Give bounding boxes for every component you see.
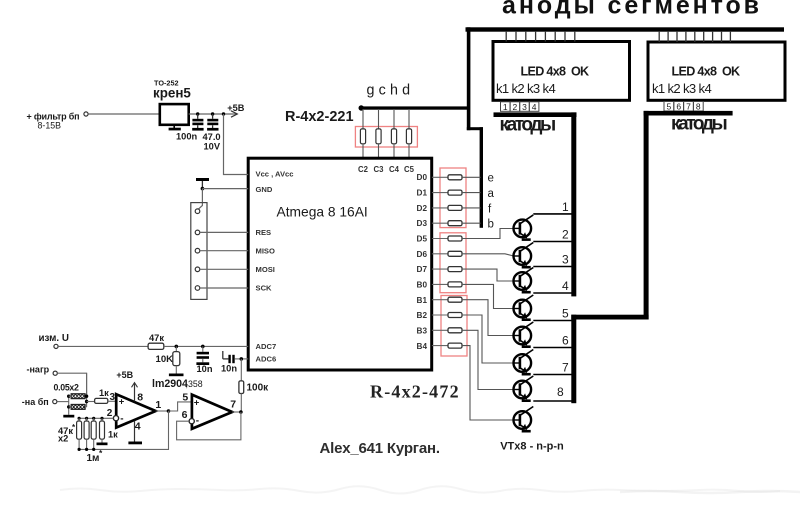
svg-text:C5: C5 [404,165,415,174]
wire: B1 resistor to Q5 base [462,300,514,336]
transistor Q5 [514,322,534,348]
resistor network group 3 red outline (B1-B4) [441,296,467,357]
svg-text:Alex_641 Курган.: Alex_641 Курган. [320,440,440,457]
svg-text:B0: B0 [417,281,428,290]
svg-text:5: 5 [667,102,672,112]
svg-text:B3: B3 [417,327,428,336]
svg-text:2: 2 [107,408,113,419]
terminal: power input [84,112,88,116]
node: feedback bus dot b [85,448,88,451]
svg-text:b: b [488,219,494,231]
svg-text:1: 1 [503,102,508,112]
wire: op-amp1 output [156,410,169,412]
LED module 2 anode pins (ticks) [659,31,730,42]
svg-text:D1: D1 [417,189,428,198]
wire: Q3 collector to cathode bus [533,266,573,268]
wire: Q6 collector to cathode bus [533,347,573,349]
svg-text:MISO: MISO [256,247,276,256]
wire: Q4 collector to cathode bus [533,292,573,294]
wire: anode bus jog horizontal [467,127,483,130]
svg-text:-на бп: -на бп [22,397,49,407]
svg-text:C2: C2 [358,165,369,174]
svg-text:ADC7: ADC7 [256,342,277,351]
svg-text:3: 3 [522,102,527,112]
node: shunt left b [67,405,70,408]
LED module 2 (LED 4x8 OK) [648,42,785,100]
svg-text:8: 8 [696,102,701,112]
svg-text:MOSI: MOSI [256,265,275,274]
wire: op-amp2 feedback loop [177,412,241,440]
resistor 47к gain (2) [84,418,89,449]
wire: cathode bus 2 vertical upper [644,111,649,320]
wire: ISP to SCK [200,287,248,289]
svg-text:C4: C4 [389,165,400,174]
ground (10K) [169,374,184,377]
wire: B0 resistor to Q4 base [462,284,514,308]
svg-text:7: 7 [562,361,569,375]
transistor Q6 [514,350,534,376]
pin: ISP 1 [195,209,200,214]
resistor R-D0 [432,175,462,180]
power arrow: +5V [231,111,237,117]
wire: cathode bus 2 horizontal jog [571,315,648,320]
node: junction 10n [201,345,205,349]
wire: segment a (D1 resistor to anode drop) [462,192,481,194]
svg-text:e: e [488,173,494,185]
svg-text:x2: x2 [58,434,68,444]
terminal: изм. U input [54,344,58,348]
resistor RN1a [360,109,365,158]
pin: ISP 3 [195,248,200,253]
svg-text:R-4x2-472: R-4x2-472 [370,382,460,402]
node: junction ADC6/100к [240,357,244,361]
ground (C2) [207,128,218,131]
svg-text:k1 k2 k3 k4: k1 k2 k3 k4 [496,81,555,96]
svg-text:10n: 10n [197,364,213,374]
node: shunt right a [85,395,88,398]
svg-text:B2: B2 [417,311,428,320]
svg-text:C3: C3 [374,165,385,174]
svg-text:8: 8 [137,391,143,403]
wire: shunt right vertical [86,373,88,407]
svg-text:7: 7 [230,399,236,411]
op-amp U3B (lm2904) [192,395,232,429]
LED module 1 (LED 4x8 OK) [493,42,630,101]
svg-text:-нагр: -нагр [27,364,50,374]
wire: anode bus vertical to e,a,f,b [480,127,483,228]
part label: lm2904,358 [152,378,203,390]
connector ISP (programming header) [191,203,207,300]
svg-text:8-15В: 8-15В [38,121,62,131]
node: shunt right b [85,400,88,403]
capacitor 10n (filter) [197,346,209,362]
pin 8: V+ supply [132,383,138,402]
pin: ISP 4 [195,267,200,272]
wire: 47к to ADC7 [164,345,248,347]
wire: cathode bus 2 vertical lower [571,315,576,404]
wire: Q5 collector to cathode bus [533,320,573,322]
pin: ISP 5 [195,286,200,291]
svg-text:катоды: катоды [671,114,727,135]
ground (shunt) [63,415,74,418]
shunt resistor 0.05 (a) [71,394,85,399]
resistor R-D7 [432,267,462,272]
node: bus dot b [85,417,88,420]
voltage regulator U2 (крен5) [160,104,189,125]
capacitor C2 47.0/10V [207,114,218,128]
terminal: -на бп [53,400,57,404]
svg-text:1: 1 [562,200,569,214]
wire: Q2 collector to cathode bus [533,241,573,243]
svg-text:g c h d: g c h d [367,83,411,99]
svg-text:6: 6 [676,102,681,112]
svg-text:1к: 1к [108,430,118,440]
LED module 1 anode pins (ticks) [506,31,575,42]
resistor network group 2 red outline (D5-B0) [440,233,466,293]
wire: +5V to MCU Vcc [224,114,249,175]
node: feedback bus dot a [78,448,81,451]
svg-text:-: - [120,413,123,424]
wire: B2 resistor to Q6 base [462,315,514,363]
svg-text:+5В: +5В [116,370,133,380]
svg-text:0.05x2: 0.05x2 [54,383,80,393]
resistor network group 1 red outline (D0-D3) [440,168,466,228]
svg-text:B1: B1 [417,296,428,305]
svg-text:D6: D6 [417,250,428,259]
svg-text:a: a [488,188,495,200]
MCU U1 Atmega 8 16AI [248,158,432,370]
node: junction C2cap [211,112,214,115]
transistor Q1 [514,215,534,241]
pin 4: ground [128,421,142,445]
ground (main GND symbol) [196,178,209,189]
wire: anode bus left vertical drop [467,27,471,130]
MCU right pin labels [417,173,428,351]
node: junction C1 [196,112,199,115]
svg-text:100n: 100n [176,132,198,142]
node: bus dot c [92,417,95,420]
capacitor C1 100n [192,114,203,128]
wire: Q8 collector to cathode bus [533,400,573,402]
MCU top pin labels C2 C3 C4 C5 [358,165,415,174]
resistor R-D1 [432,190,462,195]
ground (10n filter) [196,362,209,365]
wire: ISP to RES [200,231,248,233]
svg-text:6: 6 [562,334,569,348]
node: junction 10K [175,345,179,349]
resistor 1м feedback [91,418,96,449]
capacitor 10n (series to ADC6) [223,351,248,363]
svg-text:1м: 1м [87,453,100,464]
svg-text:D7: D7 [417,265,428,274]
svg-text:10V: 10V [204,142,221,152]
pin: inverting input circle (U3B) [189,419,194,424]
wire: op-amp1 output to op-amp2 + [169,402,192,411]
wire: B3 resistor to Q7 base [462,330,514,389]
MCU left pin labels [256,170,294,364]
svg-text:+5В: +5В [227,103,244,113]
resistor R-D6 [432,251,462,256]
svg-text:,358: ,358 [186,379,203,389]
ground (C1) [192,128,203,131]
svg-text:100к: 100к [247,383,270,394]
svg-text:катоды: катоды [500,115,556,136]
wire: ISP to MISO [200,250,248,252]
wire: power input to regulator [88,113,160,115]
decorative scan band [60,486,800,493]
node: op-amp1 output junction [167,409,171,413]
svg-text:47.0: 47.0 [203,132,221,142]
node: GND junction [201,187,205,191]
resistor R-D3 [432,221,462,226]
value label: 47к* [58,423,76,436]
wire: shunt left stubs [69,396,72,407]
wire: D7 resistor to Q3 base [462,269,514,281]
wire: shunt to 1к [87,401,95,403]
ground (regulator tab) [169,125,181,131]
resistor 1к to ground [100,418,105,442]
wire: cathode bus 2 horizontal top [644,111,733,116]
wire: изм. U to 47к [58,345,148,347]
value label: 1м* [87,448,104,464]
wire: inverting input bus [78,417,113,419]
svg-text:+: + [194,397,200,408]
svg-text:R-4x2-221: R-4x2-221 [285,109,354,125]
svg-text:SCK: SCK [256,284,273,293]
svg-text:D0: D0 [417,173,428,182]
wire: cathode bus 1 horizontal [494,112,577,117]
svg-text:4: 4 [532,102,537,112]
svg-text:D2: D2 [417,204,428,213]
resistor R-B3 [432,328,462,333]
svg-text:Vcc , AVcc: Vcc , AVcc [256,170,294,179]
wire: B4 resistor to Q8 base [462,346,514,420]
svg-text:VTx8 - n-p-n: VTx8 - n-p-n [500,441,564,453]
wire: segment b (D3 resistor to anode drop) [462,222,481,224]
wire: D6 resistor to Q2 base [462,254,514,256]
svg-text:1: 1 [155,399,161,411]
wire: g c h d anode branch [359,105,469,110]
shunt resistor 0.05 (b) [71,405,85,410]
resistor R-D5 [432,236,462,241]
svg-text:4: 4 [562,279,569,293]
wire: Q1 collector to cathode bus [533,213,573,215]
wire: op-amp2 output [232,411,241,413]
resistor 10K to ground [173,346,180,373]
resistor R-B0 [432,282,462,287]
wire: shunt left vertical [68,395,70,415]
wire: -нагр to shunt right side [57,373,86,396]
wire: +5V rail from regulator [189,113,237,115]
resistor RN1c [391,109,396,158]
svg-text:LED 4x8 OK: LED 4x8 OK [672,65,740,79]
transistor Q4 [514,295,534,321]
svg-text:2: 2 [562,228,569,242]
svg-text:D3: D3 [417,219,428,228]
wire: segment e (D0 resistor to anode drop) [462,176,481,178]
resistor network R-4x2-221 red outline [355,127,417,148]
pin: ISP 2 [195,230,200,235]
op-amp U3A (lm2904) [116,394,156,427]
svg-text:аноды сегментов: аноды сегментов [502,0,762,20]
LED module 1 cathode pins 1 2 3 4 [501,102,539,112]
resistor R-B2 [432,313,462,318]
resistor 47к (series) [148,343,164,349]
wire: D5 resistor to Q1 base [462,229,514,239]
wire: GND to MCU [202,188,248,190]
svg-text:GND: GND [256,185,273,194]
resistor 1к (series input) [95,398,108,403]
wire: cathode bus 1 vertical [571,112,576,296]
svg-text:3: 3 [562,253,569,267]
svg-text:2: 2 [513,102,518,112]
node: junction Vcc branch [222,112,225,115]
svg-text:+: + [119,397,125,408]
svg-text:D5: D5 [417,235,428,244]
svg-text:4: 4 [135,420,141,432]
resistor RN1b [376,109,381,158]
node: feedback bus dot c [92,448,95,451]
transistor Q7 [514,376,534,402]
ground (1к) [97,443,108,446]
resistor 100к (feedback to ADC6) [239,359,244,412]
svg-text:1к: 1к [99,388,109,398]
svg-text:Atmega 8 16AI: Atmega 8 16AI [277,205,368,220]
transistor Q3 [514,268,534,294]
resistor 47к gain (1) [77,418,82,449]
svg-text:10K: 10K [156,354,174,365]
svg-text:10n: 10n [221,364,237,374]
wire: ISP to MOSI [200,268,248,270]
resistor R-B4 [432,343,462,348]
node: op-amp2 output junction [239,410,243,414]
node: shunt left a [67,395,70,398]
LED module 2 cathode pins 5 6 7 8 [664,102,703,112]
wire: GND to ISP pin1 [198,189,202,210]
svg-text:ADC6: ADC6 [256,355,277,364]
svg-text:8: 8 [557,385,564,399]
svg-text:изм. U: изм. U [39,333,69,344]
wire: 1к to op-amp + input [108,400,116,402]
resistor RN1d [406,109,411,158]
terminal: -нагр [53,371,57,375]
svg-text:47к: 47к [149,333,164,343]
svg-text:7: 7 [686,102,691,112]
node: bus dot a [78,417,81,420]
svg-text:k1 k2 k3 k4: k1 k2 k3 k4 [652,81,711,96]
transistor Q2 [514,243,534,269]
resistor R-B1 [432,297,462,302]
wire: op-amp1 feedback down [78,411,168,449]
svg-text:B4: B4 [417,342,428,351]
wire: -на бп to shunt left side [57,401,68,403]
node: bus dot d [100,417,103,420]
svg-text:5: 5 [562,307,569,321]
svg-text:-: - [196,416,199,427]
svg-text:LED 4x8 OK: LED 4x8 OK [521,65,589,79]
pin: inverting input circle [113,416,118,421]
resistor R-D2 [432,205,462,210]
wire: anode bus top horizontal [466,27,785,31]
wire: Q7 collector to cathode bus [533,374,573,376]
transistor Q8 [514,407,534,433]
svg-text:5: 5 [182,391,188,403]
wire: shunt right stubs [85,396,87,407]
svg-text:lm2904: lm2904 [152,378,188,390]
wire: segment f (D2 resistor to anode drop) [462,207,481,209]
svg-text:6: 6 [182,409,188,421]
svg-text:3: 3 [110,392,116,403]
svg-text:RES: RES [256,228,272,237]
svg-text:крен5: крен5 [153,86,191,101]
